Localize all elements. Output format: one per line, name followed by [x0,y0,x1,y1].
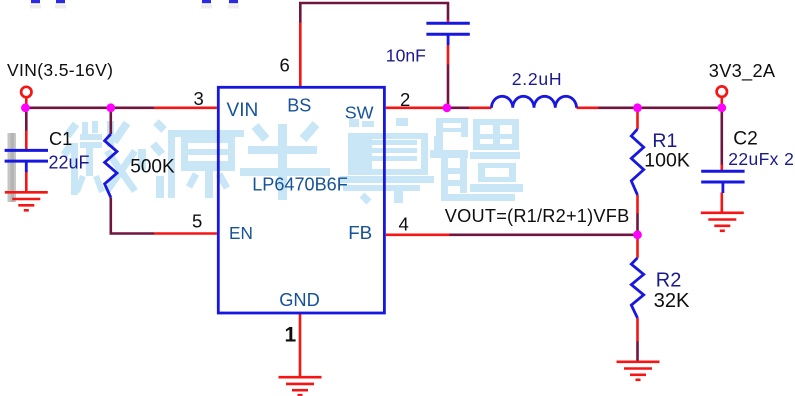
svg-text:C2: C2 [733,128,758,149]
svg-text:R1: R1 [652,130,677,152]
svg-text:R2: R2 [656,269,682,291]
svg-text:EN: EN [229,223,253,243]
svg-text:32K: 32K [654,290,690,312]
svg-text:2.2uH: 2.2uH [512,69,562,89]
svg-text:3: 3 [194,88,204,109]
svg-text:6: 6 [280,55,290,76]
svg-text:3V3_2A: 3V3_2A [709,61,776,82]
svg-text:GND: GND [279,289,320,310]
svg-text:22uF: 22uF [49,152,90,172]
svg-text:10nF: 10nF [386,46,426,66]
svg-text:2: 2 [400,89,410,110]
svg-text:LP6470B6F: LP6470B6F [252,175,348,195]
svg-text:C1: C1 [49,129,72,149]
svg-text:SW: SW [345,103,374,123]
svg-text:500K: 500K [130,156,175,177]
svg-text:FB: FB [348,222,372,243]
svg-text:22uFx 2: 22uFx 2 [728,149,794,169]
svg-text:4: 4 [399,214,409,235]
svg-text:100K: 100K [644,150,690,172]
svg-text:VIN(3.5-16V): VIN(3.5-16V) [7,60,113,80]
svg-text:1: 1 [285,323,297,346]
svg-text:VIN: VIN [227,100,259,121]
svg-text:BS: BS [287,96,311,116]
svg-text:5: 5 [192,211,202,232]
svg-text:VOUT=(R1/R2+1)VFB: VOUT=(R1/R2+1)VFB [445,206,630,226]
